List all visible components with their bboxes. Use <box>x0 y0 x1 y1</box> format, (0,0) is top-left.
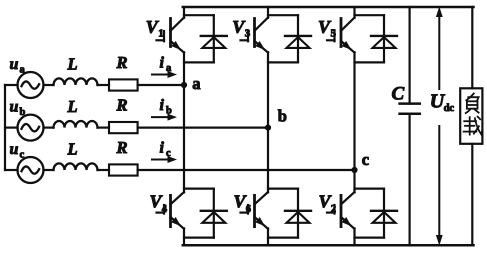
transistor V4 (IGBT) <box>157 192 185 229</box>
svg-text:4: 4 <box>162 204 168 215</box>
label V6 <box>234 192 252 216</box>
svg-text:L: L <box>67 97 78 116</box>
wire: top stub to diode leg b <box>268 14 298 16</box>
wire: capacitor to bottom rail <box>409 114 411 246</box>
wire: inductor to resistor phase c <box>98 169 110 171</box>
wire: lower stub to diode D2 <box>355 237 385 239</box>
current arrow ib <box>152 114 177 121</box>
wire: emitter of V2 to bottom rail <box>353 228 355 245</box>
transistor V6 (IGBT) <box>241 192 269 229</box>
wire: resistor to node a <box>138 84 184 86</box>
svg-text:c: c <box>20 150 25 161</box>
label Udc <box>430 90 455 113</box>
label ia <box>160 55 173 75</box>
label V3 <box>232 17 251 40</box>
wire: resistor to node b <box>138 126 268 128</box>
wire: lower stub to diode D5 <box>355 61 385 63</box>
wire: top rail drop leg b <box>267 7 269 18</box>
transistor V5 (IGBT) <box>327 18 355 53</box>
label ib <box>160 97 173 117</box>
diode D4 (antiparallel with V4) <box>201 189 227 238</box>
label ua <box>10 56 26 76</box>
label R (phase a) <box>116 53 128 72</box>
svg-text:a: a <box>20 65 26 76</box>
capacitor C <box>400 104 420 114</box>
wire: inductor to resistor phase a <box>98 84 110 86</box>
wire: top stub to diode leg a (bottom) <box>184 188 214 190</box>
label V2 <box>319 192 337 216</box>
svg-text:u: u <box>10 56 19 73</box>
svg-text:i: i <box>160 140 165 157</box>
svg-text:1: 1 <box>158 28 164 40</box>
current arrow ic <box>152 156 177 163</box>
transistor V2 (IGBT) <box>327 192 355 229</box>
label ic <box>160 140 172 160</box>
wire: load to bottom rail <box>471 144 473 246</box>
label V5 <box>318 17 337 40</box>
wire: negative DC bottom rail <box>183 244 474 247</box>
svg-text:b: b <box>278 107 287 126</box>
wire: top rail drop leg a <box>183 7 185 18</box>
AC source ua (phase a) <box>18 72 44 98</box>
wire: neutral stub phase c <box>5 169 18 171</box>
wire: source to inductor phase c <box>44 169 54 171</box>
diode D5 (antiparallel with V5) <box>371 15 397 62</box>
inductor L (phase a) <box>54 78 98 85</box>
svg-text:i: i <box>160 55 165 72</box>
wire: neutral stub phase b <box>5 126 18 128</box>
transistor V1 (IGBT) <box>157 18 185 53</box>
node c (junction dot) <box>351 167 357 173</box>
label node c <box>362 150 369 169</box>
label 负 (load char 1) <box>466 94 479 114</box>
label C <box>392 84 405 105</box>
label uc <box>10 141 25 161</box>
svg-text:a: a <box>192 74 200 93</box>
node a (junction dot) <box>181 82 187 88</box>
svg-text:b: b <box>166 106 172 117</box>
label 载 (load char 2) <box>464 117 482 135</box>
label V1 <box>146 17 164 40</box>
label L (phase a) <box>67 55 78 74</box>
wire: top rail to load <box>471 7 473 88</box>
wire: node b to collector of V6 <box>267 128 269 193</box>
svg-text:3: 3 <box>245 28 251 40</box>
diode D3 (antiparallel with V3) <box>285 15 311 62</box>
label node b <box>278 107 287 126</box>
wire: node c to collector of V2 <box>353 170 355 192</box>
svg-text:u: u <box>10 141 19 158</box>
svg-text:c: c <box>362 150 369 169</box>
wire: emitter of V5 to node c <box>353 52 355 170</box>
wire: source to inductor phase b <box>44 126 54 128</box>
label ub <box>10 99 26 119</box>
svg-text:R: R <box>116 96 128 115</box>
wire: source to inductor phase a <box>44 84 54 86</box>
svg-text:R: R <box>116 53 128 72</box>
wire: top stub to diode leg c (bottom) <box>355 188 385 190</box>
transistor V3 (IGBT) <box>241 18 269 53</box>
label L (phase b) <box>67 97 78 116</box>
svg-text:c: c <box>166 148 171 159</box>
wire: lower stub to diode D3 <box>268 61 298 63</box>
inductor L (phase c) <box>54 163 98 170</box>
label node a <box>192 74 200 93</box>
wire: lower stub to diode D6 <box>268 237 298 239</box>
wire: top stub to diode leg b (bottom) <box>268 188 298 190</box>
voltage arrow Udc (double-headed) <box>436 7 443 246</box>
wire: lower stub to diode D1 <box>184 61 214 63</box>
wire: resistor to node c <box>138 169 355 171</box>
wire: node a to collector of V4 <box>183 85 185 192</box>
diode D2 (antiparallel with V2) <box>371 189 397 238</box>
wire: top rail drop leg c <box>353 7 355 18</box>
wire: top stub to diode leg a <box>184 14 214 16</box>
svg-text:b: b <box>20 107 26 118</box>
wire: positive DC top rail <box>183 6 474 9</box>
wire: lower stub to diode D4 <box>184 237 214 239</box>
resistor R (phase b) <box>109 122 138 133</box>
current arrow ia <box>152 71 177 78</box>
svg-text:i: i <box>160 97 165 114</box>
wire: neutral stub phase a <box>5 84 18 86</box>
label R (phase b) <box>116 96 128 115</box>
inductor L (phase b) <box>54 121 98 128</box>
label L (phase c) <box>67 140 78 159</box>
svg-text:L: L <box>67 140 78 159</box>
wire: emitter of V1 to node a <box>183 52 185 85</box>
AC source uc (phase c) <box>18 157 44 183</box>
load box (负载) <box>460 88 482 144</box>
wire: top rail to capacitor <box>409 7 411 104</box>
wire: emitter of V6 to bottom rail <box>267 228 269 245</box>
wire: inductor to resistor phase b <box>98 126 110 128</box>
resistor R (phase a) <box>109 79 138 90</box>
resistor R (phase c) <box>109 164 138 175</box>
AC source ub (phase b) <box>18 115 44 141</box>
svg-text:L: L <box>67 55 78 74</box>
label V4 <box>150 192 168 216</box>
diode D6 (antiparallel with V6) <box>285 189 311 238</box>
node b (junction dot) <box>265 125 271 131</box>
svg-text:R: R <box>116 138 128 157</box>
wire: emitter of V4 to bottom rail <box>183 228 185 245</box>
wire: top stub to diode leg c <box>355 14 385 16</box>
label R (phase c) <box>116 138 128 157</box>
svg-text:2: 2 <box>331 204 336 215</box>
svg-text:u: u <box>10 99 19 116</box>
svg-text:6: 6 <box>246 204 251 215</box>
diode D1 (antiparallel with V1) <box>201 15 227 62</box>
svg-text:a: a <box>166 63 172 74</box>
svg-text:5: 5 <box>331 28 337 40</box>
svg-text:C: C <box>392 84 405 105</box>
wire: emitter of V3 to node b <box>267 52 269 127</box>
svg-text:dc: dc <box>444 103 455 114</box>
wire: neutral bus (left vertical) <box>4 85 6 170</box>
